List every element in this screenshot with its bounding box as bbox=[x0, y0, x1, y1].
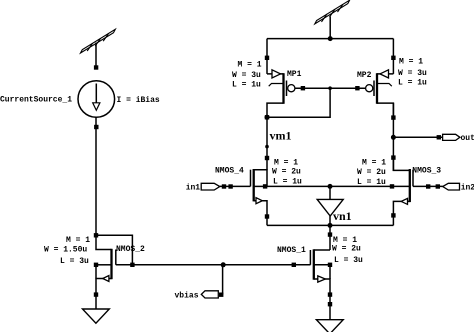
junction Vn1 tap bbox=[328, 184, 333, 189]
wire VDD rail bbox=[267, 38, 393, 40]
junction Vm1 bbox=[265, 115, 270, 120]
svg-text:W = 2u: W = 2u bbox=[357, 168, 386, 177]
junction tail bbox=[328, 223, 333, 228]
transistor MP1 bbox=[267, 70, 295, 117]
svg-text:vn1: vn1 bbox=[333, 209, 352, 223]
svg-text:NMOS_3: NMOS_3 bbox=[412, 167, 441, 176]
power symbol VDD top bbox=[315, 0, 350, 38]
junction out tap bbox=[391, 135, 396, 140]
power symbol VDD left bbox=[81, 29, 116, 66]
transistor NMOS_2 bbox=[94, 233, 133, 297]
wire diode connection MP1 bbox=[267, 88, 330, 117]
transistor NMOS_4 bbox=[251, 169, 270, 225]
svg-text:L = 3u: L = 3u bbox=[334, 256, 363, 265]
junction vbias tap bbox=[221, 262, 226, 267]
svg-text:NMOS_4: NMOS_4 bbox=[215, 167, 244, 176]
svg-text:W = 1.50u: W = 1.50u bbox=[44, 246, 87, 255]
wire out bbox=[393, 136, 442, 138]
node Vn1 tap symbol bbox=[317, 186, 343, 225]
ground under NMOS_2 bbox=[83, 295, 110, 324]
svg-text:vm1: vm1 bbox=[270, 129, 292, 143]
wire tail rail bbox=[267, 224, 393, 226]
current source CurrentSource_1 bbox=[78, 65, 115, 129]
svg-text:MP2: MP2 bbox=[357, 71, 372, 80]
svg-text:I = iBias: I = iBias bbox=[117, 96, 160, 105]
wire MP2 drain to out bbox=[392, 103, 394, 171]
wire vbias drop bbox=[222, 265, 224, 295]
svg-text:W = 3u: W = 3u bbox=[398, 69, 427, 78]
svg-text:L = 3u: L = 3u bbox=[60, 257, 89, 266]
svg-text:NMOS_2: NMOS_2 bbox=[116, 245, 145, 254]
svg-text:NMOS_1: NMOS_1 bbox=[277, 246, 306, 255]
svg-text:M = 1: M = 1 bbox=[362, 159, 386, 168]
svg-text:CurrentSource_1: CurrentSource_1 bbox=[0, 96, 72, 105]
transistor NMOS_3 bbox=[390, 158, 443, 226]
node Vm1 wire down bbox=[266, 117, 268, 169]
wire rail to MP1 source bbox=[266, 39, 268, 74]
transistor MP2 bbox=[366, 70, 394, 118]
wire rail to MP2 source bbox=[392, 39, 394, 74]
svg-text:M = 1: M = 1 bbox=[238, 61, 262, 70]
svg-text:W = 2u: W = 2u bbox=[272, 168, 301, 177]
svg-text:vbias: vbias bbox=[175, 292, 199, 301]
svg-text:L = 1u: L = 1u bbox=[273, 178, 302, 187]
wire bulk tie net bbox=[267, 185, 393, 187]
svg-text:M = 1: M = 1 bbox=[66, 236, 90, 245]
wire gate net MP1-MP2 bbox=[295, 87, 366, 89]
svg-text:W = 3u: W = 3u bbox=[232, 71, 261, 80]
svg-text:in1: in1 bbox=[186, 184, 201, 193]
junction VDD rail bbox=[328, 36, 333, 41]
junction gate net bbox=[328, 86, 332, 90]
svg-text:M = 1: M = 1 bbox=[399, 58, 423, 67]
pin vbias bbox=[201, 291, 223, 298]
pin out bbox=[443, 134, 460, 140]
wire NMOS_2 diode connection bbox=[96, 235, 132, 264]
svg-text:MP1: MP1 bbox=[287, 70, 302, 79]
net vbias wire bbox=[132, 264, 310, 266]
wire in1 to NMOS_4 gate bbox=[220, 185, 251, 187]
ground under NMOS_1 bbox=[316, 304, 343, 332]
transistor NMOS_1 bbox=[292, 249, 333, 306]
wire tail to NMOS_1 drain bbox=[329, 225, 331, 250]
svg-text:in2: in2 bbox=[461, 184, 474, 193]
svg-text:L = 1u: L = 1u bbox=[232, 81, 261, 90]
wire left branch down bbox=[95, 117, 97, 235]
svg-text:M = 1: M = 1 bbox=[274, 159, 298, 168]
pin in1 bbox=[201, 183, 233, 190]
svg-text:W = 2u: W = 2u bbox=[332, 245, 361, 254]
svg-text:out: out bbox=[461, 134, 474, 143]
svg-text:L = 1u: L = 1u bbox=[398, 79, 427, 88]
pin in2 bbox=[426, 183, 460, 190]
